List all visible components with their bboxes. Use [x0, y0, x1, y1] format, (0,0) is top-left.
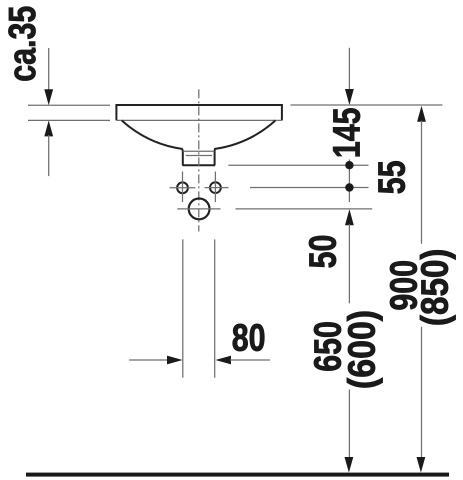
left hole crosshair horizontal [170, 187, 196, 189]
extension line drain hole level [236, 208, 373, 210]
basin rim outline [116, 105, 282, 120]
right faucet hole circle [210, 182, 221, 193]
drain bottom [182, 164, 215, 166]
dimension 900 line upper [421, 121, 423, 244]
dimension 900 line lower [421, 327, 423, 458]
dimension ca.35 lower arrow line [48, 135, 50, 176]
svg-text:ca.35: ca.35 [2, 6, 44, 82]
extension line faucet holes level [250, 187, 369, 189]
supply pipe line left [182, 239, 184, 377]
floor line [26, 473, 449, 477]
dimension 650 line lower [348, 390, 350, 459]
dimension 900 arrowhead up [417, 106, 426, 122]
dimension 50 arrowhead up [345, 209, 354, 225]
drain flange line [186, 155, 212, 157]
dimension 80 right arrow line [230, 359, 270, 361]
countertop bottom edge left [28, 119, 110, 121]
basin rim bottom edge [116, 119, 282, 121]
dimension 900 arrowhead down at floor [417, 457, 426, 473]
dimension ca.35 lower arrowhead [44, 120, 53, 136]
dimension 145 line above [348, 48, 350, 90]
svg-text:(600): (600) [341, 310, 383, 389]
dimension 145 arrowhead down [345, 89, 354, 105]
right hole crosshair horizontal [205, 187, 229, 189]
dimension 650 arrowhead down at floor [345, 457, 354, 473]
dimension ca.35 upper arrow line [48, 48, 50, 90]
basin bowl left curve [122, 120, 183, 151]
dimension 80 left arrowhead [167, 356, 183, 365]
dot at faucet holes level [345, 183, 353, 191]
svg-text:50: 50 [302, 235, 344, 269]
left faucet hole circle [177, 182, 188, 193]
drain hole circle [189, 199, 210, 220]
dot at drain bottom level [345, 161, 353, 169]
basin bowl right curve [215, 120, 276, 151]
countertop top edge right extension [291, 104, 443, 106]
vertical centerline (dash-dot) [198, 89, 200, 231]
svg-text:(850): (850) [414, 248, 456, 326]
svg-text:145: 145 [326, 107, 368, 158]
supply pipe line right [214, 239, 216, 377]
drain lip top line [183, 150, 214, 152]
svg-text:80: 80 [232, 317, 266, 359]
drain right side [214, 151, 216, 165]
extension line drain bottom level [228, 164, 368, 166]
dimension 50/650 line [348, 224, 350, 303]
right hole crosshair vertical [214, 172, 216, 203]
drain left side [182, 151, 184, 165]
dimension 80 right arrowhead [215, 356, 231, 365]
drain hole crosshair horizontal [177, 208, 220, 210]
dimension 80 left arrow line [129, 359, 168, 361]
dimension ca.35 upper arrowhead [44, 89, 53, 105]
dimension line through dots [348, 160, 350, 203]
left hole crosshair vertical [182, 172, 184, 203]
svg-text:55: 55 [371, 160, 413, 194]
countertop top edge left [28, 104, 110, 106]
